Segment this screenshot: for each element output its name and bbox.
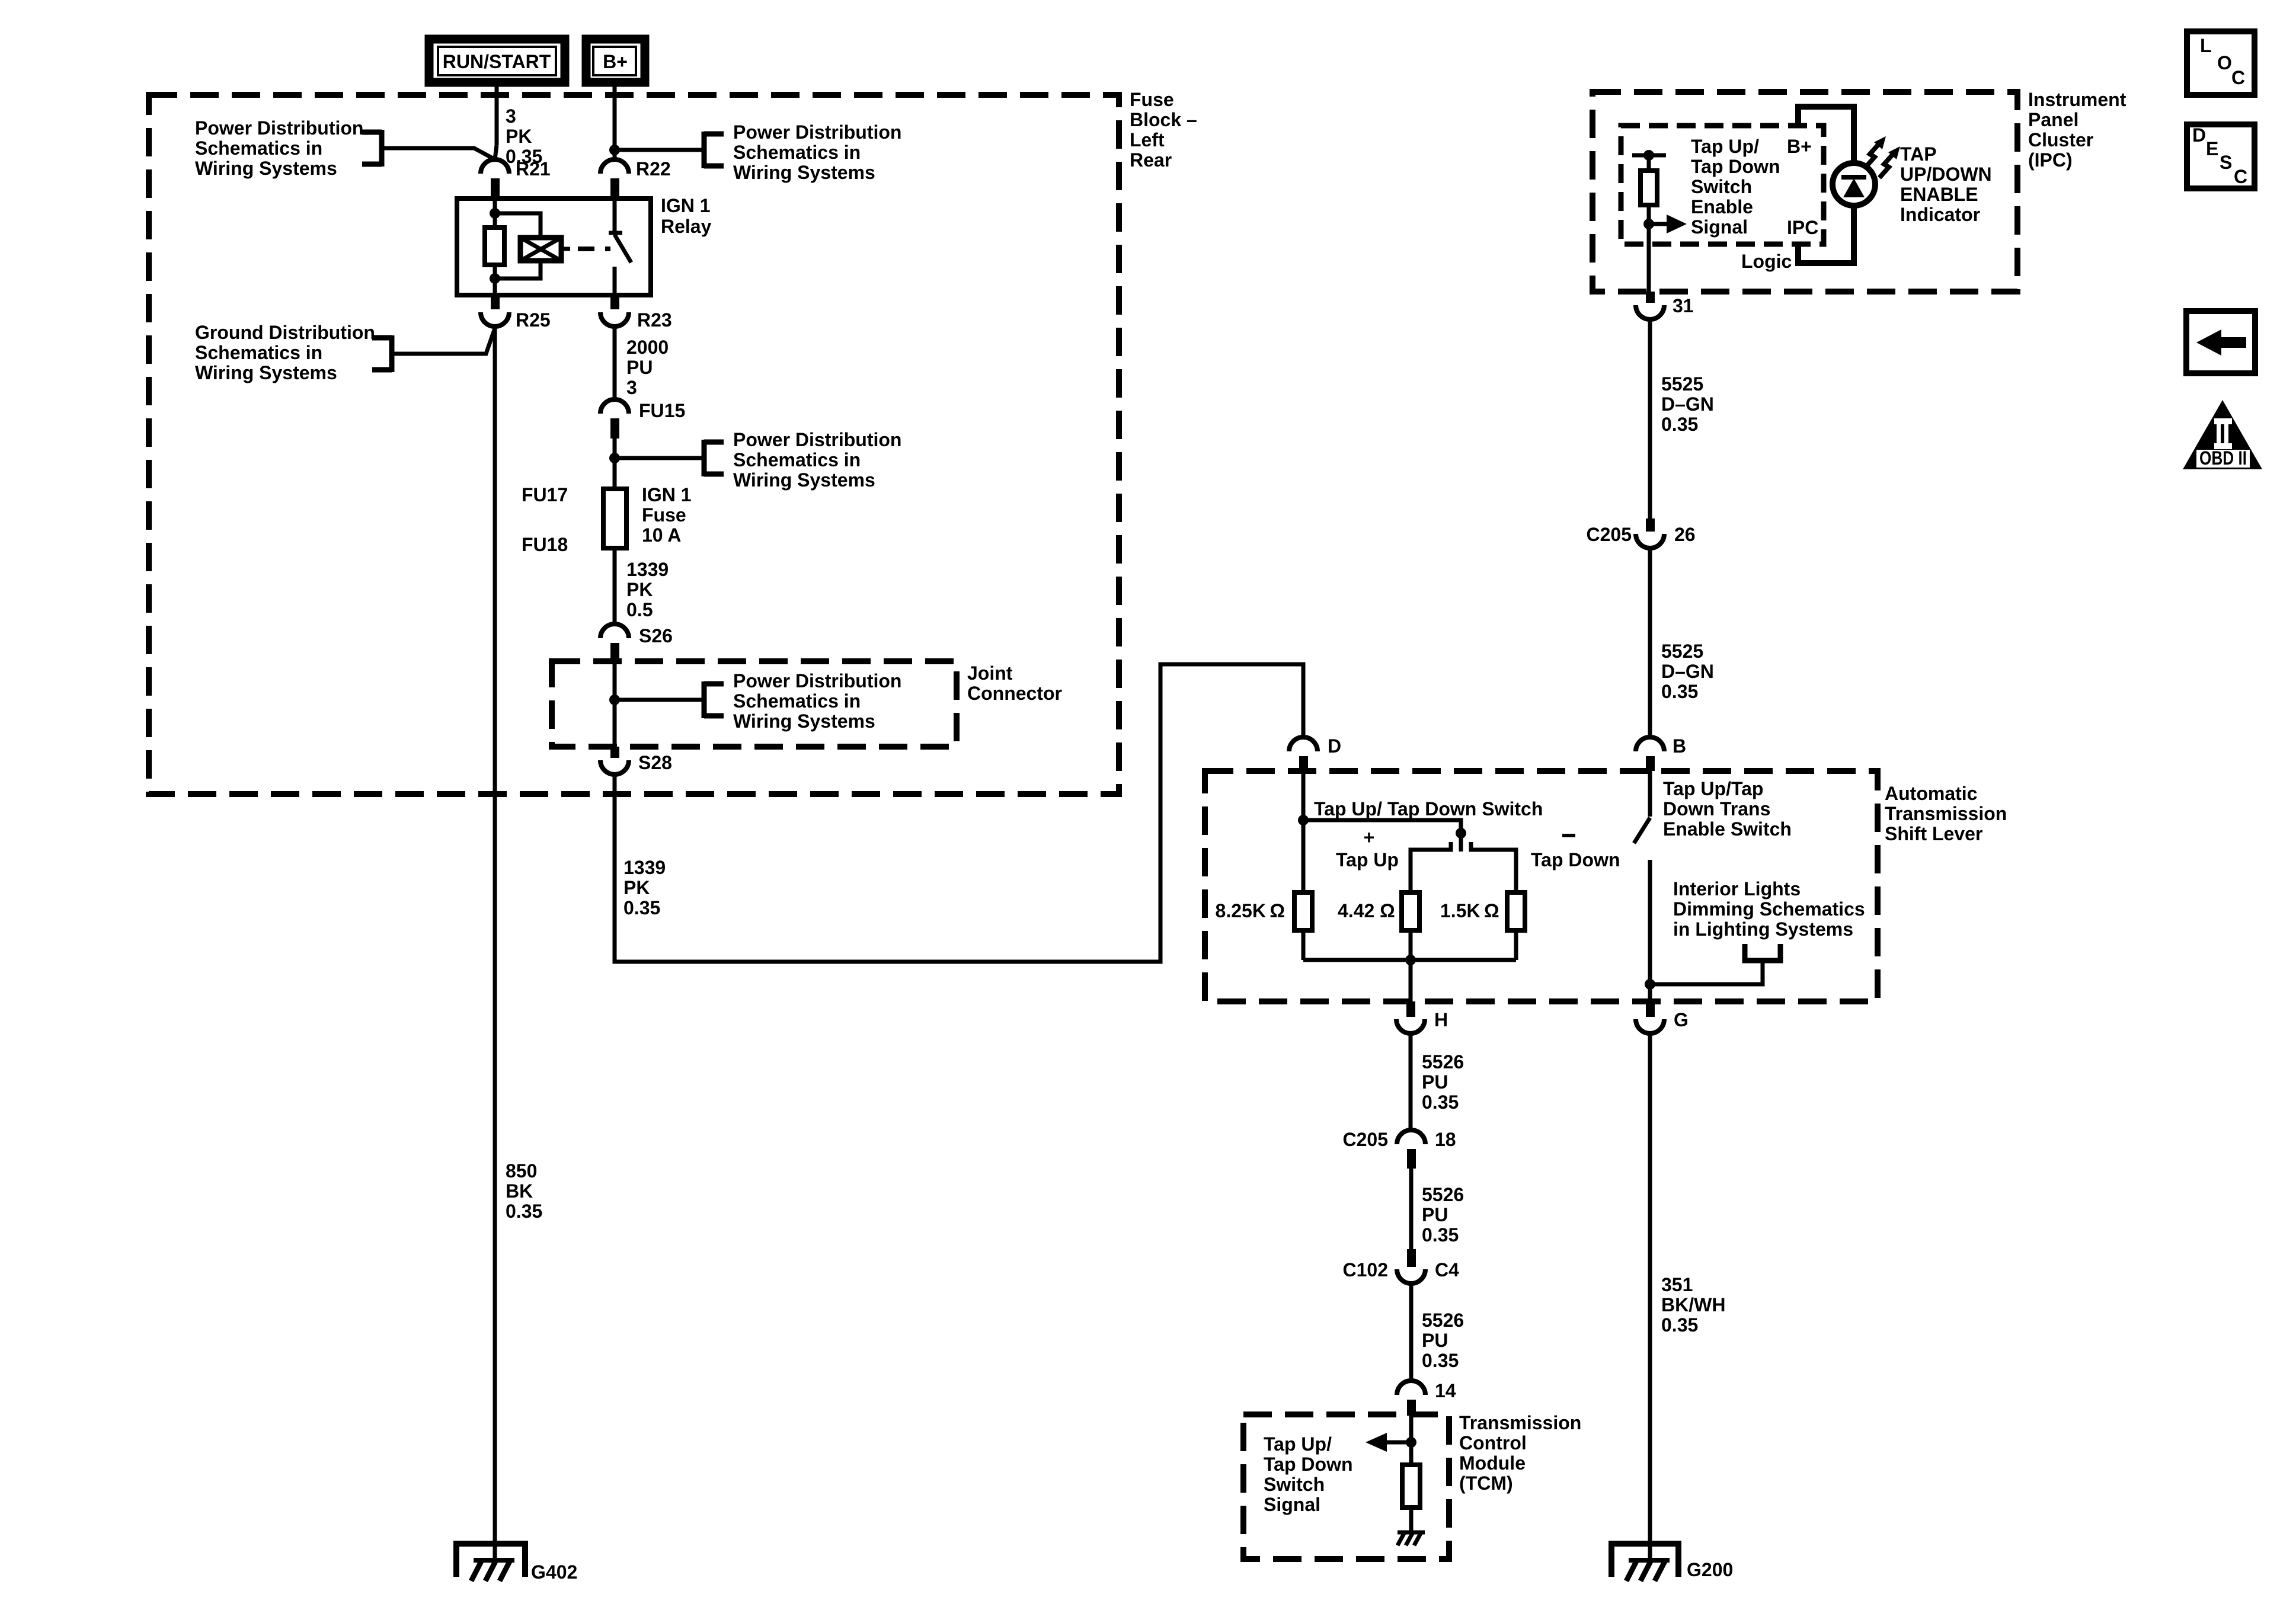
svg-text:8.25K Ω: 8.25K Ω <box>1216 900 1285 921</box>
connector 14 <box>1397 1380 1456 1416</box>
connector R21 <box>481 158 551 199</box>
label - Tap Down <box>1531 836 1620 870</box>
callout Power Distribution Schematics in Wiring Systems (top left) <box>195 117 382 179</box>
junction dot relay bottom <box>490 273 500 284</box>
relay coil branch wires <box>495 199 541 295</box>
icon DESC box <box>2187 124 2255 188</box>
svg-text:G: G <box>1674 1009 1689 1030</box>
TCM pulldown resistor <box>1402 1465 1420 1507</box>
instrument panel cluster dashed box <box>1593 92 2017 292</box>
svg-text:D–GN: D–GN <box>1661 393 1714 415</box>
svg-text:G402: G402 <box>531 1561 577 1583</box>
resistor 1.5K <box>1440 892 1525 930</box>
connector R23 <box>600 295 672 331</box>
wire label 3 PK 0.35 <box>506 105 542 167</box>
in-line connector C102 pin C4 <box>1343 1249 1460 1283</box>
junction dot on bus <box>1405 955 1416 965</box>
svg-text:0.35: 0.35 <box>1661 1314 1698 1336</box>
tap switch contacts <box>1411 842 1516 892</box>
wire R23 to FU15 <box>613 327 617 399</box>
label FU17 <box>522 484 568 505</box>
svg-text:Cluster: Cluster <box>2028 129 2093 151</box>
svg-text:PU: PU <box>626 357 653 378</box>
tap switch common pole <box>1456 828 1466 852</box>
svg-text:Control: Control <box>1459 1432 1527 1454</box>
svg-text:Panel: Panel <box>2028 109 2078 130</box>
svg-text:PU: PU <box>1422 1071 1448 1093</box>
svg-text:C205: C205 <box>1343 1129 1389 1150</box>
wire label 5526 PU 0.35 <box>1422 1310 1464 1371</box>
IPC internal resistor <box>1641 155 1657 292</box>
tap up/tap down trans enable switch <box>1634 771 1650 1001</box>
svg-text:5525: 5525 <box>1661 641 1703 662</box>
svg-text:Switch: Switch <box>1264 1474 1325 1495</box>
label Fuse Block - Left Rear <box>1130 89 1197 171</box>
junction dot in joint connector <box>609 694 620 705</box>
svg-text:R23: R23 <box>637 309 672 331</box>
wire R25 to G402 <box>493 327 497 1560</box>
LED light rays <box>1865 136 1900 178</box>
connector B <box>1636 735 1686 771</box>
label FU18 <box>522 534 568 555</box>
svg-text:L: L <box>2200 35 2212 56</box>
svg-text:H: H <box>1434 1009 1448 1030</box>
power feed box B+ <box>586 39 645 82</box>
svg-text:1.5K Ω: 1.5K Ω <box>1440 900 1499 921</box>
svg-text:Wiring Systems: Wiring Systems <box>733 469 875 491</box>
label Automatic Transmission Shift Lever <box>1885 783 2007 844</box>
wire label 1339 PK 0.35 <box>623 857 666 918</box>
junction dot on D wire <box>1298 815 1309 825</box>
svg-text:5525: 5525 <box>1661 373 1703 395</box>
label Tap Up/ Tap Down Switch Signal <box>1264 1433 1353 1515</box>
callout Ground Distribution Schematics in Wiring Systems <box>195 322 392 383</box>
relay coil (box with X) <box>520 238 561 261</box>
icon OBD II triangle <box>2183 400 2262 469</box>
svg-text:C102: C102 <box>1343 1259 1389 1281</box>
wire C102 to 14 <box>1409 1283 1414 1381</box>
junction dot relay top <box>490 208 500 219</box>
svg-text:1339: 1339 <box>626 559 669 580</box>
svg-text:B+: B+ <box>1787 136 1812 157</box>
wire junction to callout <box>615 148 704 152</box>
wire label 1339 PK 0.5 <box>626 559 669 620</box>
resistor 4.42 <box>1338 892 1419 930</box>
svg-text:0.35: 0.35 <box>1661 414 1698 435</box>
connector S26 <box>600 624 673 661</box>
label TAP UP/DOWN ENABLE Indicator <box>1900 143 1992 225</box>
label Tap Up/Tap Down Trans Enable Switch <box>1663 778 1792 840</box>
svg-text:PU: PU <box>1422 1204 1448 1225</box>
svg-text:C: C <box>2231 67 2245 88</box>
svg-text:5526: 5526 <box>1422 1184 1464 1205</box>
connector D <box>1289 735 1341 771</box>
icon back arrow box <box>2186 311 2255 373</box>
svg-text:26: 26 <box>1674 524 1696 545</box>
icon LOC box <box>2187 31 2255 95</box>
wire label 5526 PU 0.35 <box>1422 1051 1464 1113</box>
in-line connector C205 pin 18 <box>1343 1129 1456 1169</box>
svg-text:S26: S26 <box>639 625 673 646</box>
svg-text:Tap Down: Tap Down <box>1264 1454 1353 1475</box>
svg-text:S28: S28 <box>638 752 672 773</box>
svg-text:PK: PK <box>626 579 653 600</box>
connector S28 <box>600 747 672 774</box>
svg-text:Left: Left <box>1130 129 1165 151</box>
svg-text:Automatic: Automatic <box>1885 783 1977 804</box>
label B+ pin <box>1787 136 1812 157</box>
svg-text:Transmission: Transmission <box>1459 1412 1581 1433</box>
svg-text:FU15: FU15 <box>639 400 685 421</box>
svg-text:E: E <box>2206 138 2218 159</box>
svg-text:18: 18 <box>1435 1129 1456 1150</box>
svg-text:1339: 1339 <box>623 857 666 878</box>
callout Power Distribution Schematics in Wiring Systems (mid) <box>704 429 901 491</box>
svg-text:Tap Up/ Tap Down Switch: Tap Up/ Tap Down Switch <box>1314 798 1543 820</box>
bottom bus of tap switch resistors <box>1303 930 1516 960</box>
connector R25 <box>481 295 551 331</box>
logic solid outline <box>1798 107 1854 263</box>
svg-text:Signal: Signal <box>1264 1494 1320 1515</box>
label Tap Up/ Tap Down Switch Enable Signal <box>1691 136 1780 238</box>
label Logic <box>1741 251 1792 272</box>
connector H <box>1396 1001 1448 1033</box>
svg-text:R21: R21 <box>516 158 551 180</box>
connector FU15 <box>600 399 685 438</box>
callout Power Distribution Schematics in Wiring Systems (right of B+) <box>704 121 901 183</box>
TCM signal arrow <box>1366 1433 1411 1452</box>
junction dot IPC signal <box>1643 219 1654 229</box>
svg-text:Wiring Systems: Wiring Systems <box>195 362 337 383</box>
relay switch <box>609 199 631 295</box>
wire S28 to shift lever connector D <box>615 664 1303 962</box>
svg-text:Tap Up/: Tap Up/ <box>1264 1433 1332 1455</box>
svg-text:Wiring Systems: Wiring Systems <box>733 710 875 732</box>
svg-text:BK/WH: BK/WH <box>1661 1294 1725 1315</box>
svg-text:(IPC): (IPC) <box>2028 149 2073 171</box>
svg-text:5526: 5526 <box>1422 1310 1464 1331</box>
TCM input wire <box>1409 1416 1414 1465</box>
svg-text:Joint: Joint <box>967 662 1013 684</box>
svg-text:RUN/START: RUN/START <box>443 51 551 72</box>
svg-text:Schematics in: Schematics in <box>733 449 861 470</box>
relay coil stub and mechanical dashed link <box>561 247 610 251</box>
svg-text:PK: PK <box>506 126 532 147</box>
joint connector dashed box <box>552 661 957 747</box>
svg-text:0.35: 0.35 <box>1661 681 1698 702</box>
connector 31 <box>1636 292 1694 319</box>
svg-text:0.35: 0.35 <box>1422 1350 1459 1371</box>
wire C205 to C102 <box>1409 1169 1414 1249</box>
svg-text:PK: PK <box>623 877 650 898</box>
svg-text:IGN 1: IGN 1 <box>661 195 711 216</box>
wire callout to R25 <box>394 328 495 354</box>
svg-text:D: D <box>2192 124 2206 146</box>
svg-text:Tap Up: Tap Up <box>1336 849 1399 870</box>
svg-text:C4: C4 <box>1435 1259 1459 1281</box>
svg-text:OBD II: OBD II <box>2199 447 2247 469</box>
svg-text:Fuse: Fuse <box>642 504 686 526</box>
wire bus to H <box>1409 960 1413 1001</box>
svg-text:FU18: FU18 <box>522 534 568 555</box>
junction dot TCM <box>1406 1437 1416 1448</box>
fuse block - left rear dashed box <box>149 95 1119 794</box>
fuse IGN 1 10A <box>603 489 626 548</box>
svg-text:Wiring Systems: Wiring Systems <box>195 158 337 179</box>
svg-text:Ground Distribution: Ground Distribution <box>195 322 375 343</box>
wire through joint connector <box>613 661 617 747</box>
svg-text:2000: 2000 <box>626 337 669 358</box>
svg-text:Enable Switch: Enable Switch <box>1663 818 1792 840</box>
wire label 850 BK 0.35 <box>506 1160 542 1222</box>
LED tap up/down enable indicator <box>1833 163 1875 206</box>
wire H to C205 <box>1409 1033 1413 1130</box>
svg-text:Rear: Rear <box>1130 149 1172 171</box>
label Tap Up/ Tap Down Switch <box>1314 798 1543 820</box>
svg-text:3: 3 <box>626 377 637 398</box>
wire G to G200 <box>1648 1033 1652 1560</box>
svg-text:UP/DOWN: UP/DOWN <box>1900 164 1992 185</box>
label Transmission Control Module (TCM) <box>1459 1412 1581 1494</box>
wire callout to R21 <box>384 148 495 159</box>
svg-text:Signal: Signal <box>1691 216 1748 238</box>
svg-text:Dimming Schematics: Dimming Schematics <box>1673 898 1865 920</box>
wire junction to callout <box>615 456 704 460</box>
svg-text:4.42 Ω: 4.42 Ω <box>1338 900 1395 921</box>
svg-text:Down Trans: Down Trans <box>1663 798 1770 820</box>
label + Tap Up <box>1336 827 1399 870</box>
wire label 5526 PU 0.35 <box>1422 1184 1464 1246</box>
svg-text:Connector: Connector <box>967 683 1062 704</box>
label IPC pin <box>1787 217 1818 238</box>
wire C205 to B <box>1648 548 1652 738</box>
svg-text:Power Distribution: Power Distribution <box>195 117 363 139</box>
svg-text:FU17: FU17 <box>522 484 568 505</box>
junction dot above G <box>1645 979 1655 990</box>
svg-text:Interior Lights: Interior Lights <box>1673 878 1801 900</box>
IPC pullup node bar <box>1632 150 1666 161</box>
svg-text:Schematics in: Schematics in <box>195 137 322 159</box>
svg-text:Logic: Logic <box>1741 251 1792 272</box>
svg-text:5526: 5526 <box>1422 1051 1464 1073</box>
svg-text:Tap Up/: Tap Up/ <box>1691 136 1759 157</box>
svg-text:Indicator: Indicator <box>1900 204 1980 225</box>
svg-text:Tap Up/Tap: Tap Up/Tap <box>1663 778 1763 799</box>
label Joint Connector <box>967 662 1062 704</box>
svg-text:Power Distribution: Power Distribution <box>733 429 901 450</box>
svg-text:+: + <box>1364 827 1375 848</box>
svg-text:D–GN: D–GN <box>1661 661 1714 682</box>
svg-text:Schematics in: Schematics in <box>195 342 322 363</box>
transmission control module dashed box <box>1243 1414 1449 1559</box>
svg-text:B: B <box>1673 735 1686 757</box>
relay internal resistor <box>485 228 504 265</box>
svg-text:10 A: 10 A <box>642 524 681 546</box>
wire fuse to S26 <box>613 548 617 624</box>
ground G200 <box>1611 1544 1733 1581</box>
svg-text:Instrument: Instrument <box>2028 89 2126 110</box>
svg-text:B+: B+ <box>603 51 628 72</box>
svg-text:Power Distribution: Power Distribution <box>733 670 901 692</box>
callout Power Distribution Schematics in Wiring Systems (joint) <box>704 670 901 732</box>
svg-text:3: 3 <box>506 105 516 127</box>
svg-text:Enable: Enable <box>1691 196 1753 217</box>
in-line connector C205 pin 26 <box>1587 518 1696 548</box>
wire 31 to C205 <box>1648 319 1652 518</box>
relay IGN 1 box <box>457 199 651 295</box>
svg-text:IGN 1: IGN 1 <box>642 484 692 505</box>
svg-text:IPC: IPC <box>1787 217 1818 238</box>
label IGN 1 Relay <box>661 195 712 237</box>
svg-text:0.35: 0.35 <box>623 897 660 918</box>
automatic transmission shift lever dashed box <box>1205 771 1878 1001</box>
svg-text:Schematics in: Schematics in <box>733 142 861 163</box>
wire label 2000 PU 3 <box>626 337 669 398</box>
svg-text:0.35: 0.35 <box>1422 1092 1459 1113</box>
connector R22 <box>600 158 671 199</box>
wire junction to callout <box>615 698 704 702</box>
svg-text:C205: C205 <box>1587 524 1632 545</box>
label Instrument Panel Cluster (IPC) <box>2028 89 2126 171</box>
IPC inner dashed box <box>1621 126 1824 244</box>
IPC signal arrow <box>1649 215 1687 233</box>
node junction on B+ wire <box>609 145 620 155</box>
svg-text:31: 31 <box>1673 295 1694 316</box>
svg-text:0.35: 0.35 <box>1422 1224 1459 1246</box>
svg-text:Block –: Block – <box>1130 109 1197 130</box>
wire label 351 BK/WH 0.35 <box>1661 1274 1725 1336</box>
svg-text:Relay: Relay <box>661 216 712 237</box>
svg-text:D: D <box>1328 735 1341 757</box>
svg-text:Module: Module <box>1459 1452 1526 1474</box>
svg-text:0.5: 0.5 <box>626 599 653 620</box>
svg-text:Fuse: Fuse <box>1130 89 1174 110</box>
svg-text:in Lighting Systems: in Lighting Systems <box>1673 918 1853 940</box>
wire D to switch node <box>1303 771 1461 892</box>
svg-text:14: 14 <box>1435 1380 1456 1401</box>
connector G <box>1636 1001 1689 1033</box>
TCM internal ground <box>1398 1507 1425 1545</box>
wire label 5525 D-GN 0.35 <box>1661 641 1714 702</box>
wire B+ to R22 <box>613 82 617 159</box>
svg-text:ENABLE: ENABLE <box>1900 184 1978 205</box>
svg-text:C: C <box>2234 166 2247 187</box>
svg-text:Tap Down: Tap Down <box>1691 156 1780 177</box>
wire callout to G wire <box>1650 961 1763 984</box>
wire FU15 to fuse <box>613 438 617 489</box>
label IGN 1 Fuse 10 A <box>642 484 692 546</box>
ground G402 <box>456 1544 577 1583</box>
wire label 5525 D-GN 0.35 <box>1661 373 1714 435</box>
svg-text:Transmission: Transmission <box>1885 803 2007 824</box>
resistor 8.25K <box>1216 892 1312 930</box>
svg-text:TAP: TAP <box>1900 143 1937 165</box>
svg-text:R25: R25 <box>516 309 551 331</box>
svg-text:S: S <box>2220 152 2232 173</box>
svg-text:Shift Lever: Shift Lever <box>1885 823 1982 844</box>
svg-text:(TCM): (TCM) <box>1459 1473 1513 1494</box>
junction dot below FU15 <box>609 453 620 463</box>
svg-text:BK: BK <box>506 1180 533 1202</box>
svg-text:Switch: Switch <box>1691 176 1752 197</box>
callout Interior Lights Dimming Schematics in Lighting Systems <box>1673 878 1865 961</box>
svg-text:0.35: 0.35 <box>506 1201 542 1222</box>
svg-text:Tap Down: Tap Down <box>1531 849 1620 870</box>
svg-text:G200: G200 <box>1687 1559 1733 1580</box>
svg-text:850: 850 <box>506 1160 537 1182</box>
svg-text:351: 351 <box>1661 1274 1693 1295</box>
svg-text:Wiring Systems: Wiring Systems <box>733 162 875 183</box>
wire RUN/START to R21 <box>495 82 497 159</box>
power feed box RUN/START <box>429 39 565 82</box>
svg-text:Power Distribution: Power Distribution <box>733 121 901 143</box>
svg-text:O: O <box>2217 52 2232 73</box>
svg-text:R22: R22 <box>636 158 671 180</box>
svg-text:Schematics in: Schematics in <box>733 690 861 712</box>
svg-text:PU: PU <box>1422 1330 1448 1351</box>
